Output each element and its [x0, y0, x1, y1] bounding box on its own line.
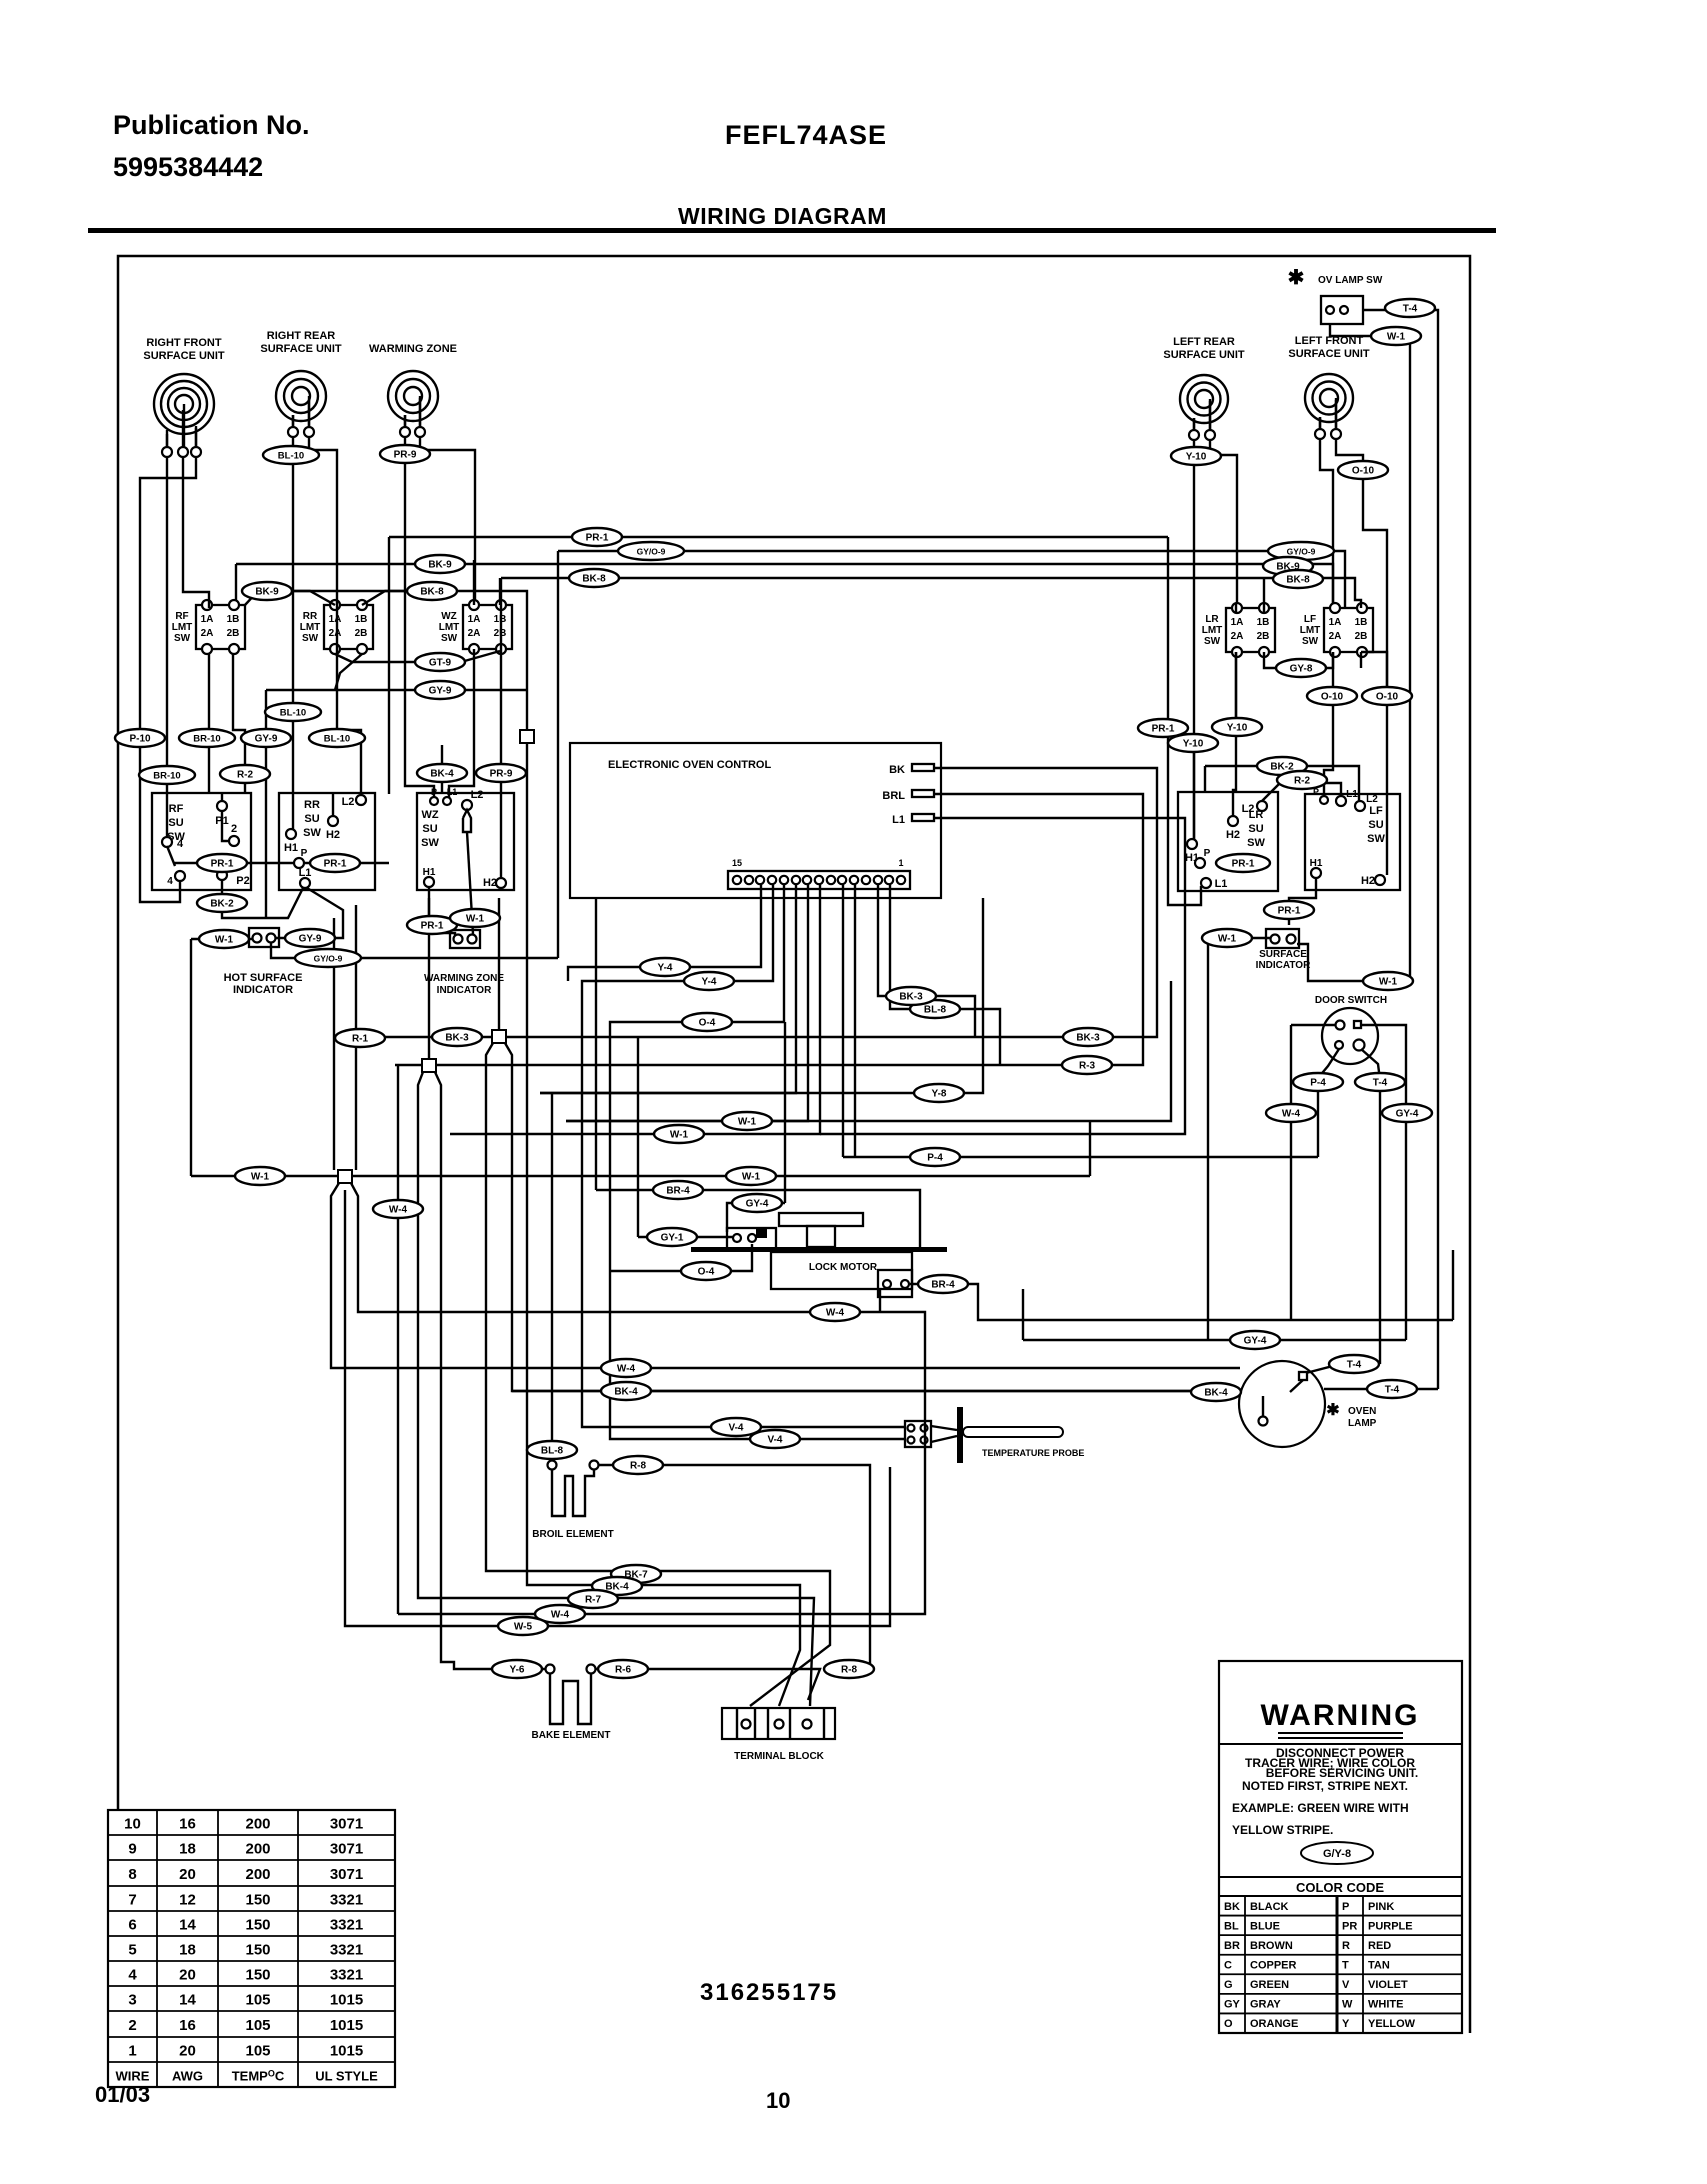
wire label BR-10 [139, 766, 195, 784]
svg-text:2: 2 [231, 823, 237, 835]
svg-text:BR-10: BR-10 [193, 734, 220, 745]
svg-text:WZ: WZ [421, 809, 438, 821]
svg-text:BK: BK [889, 764, 905, 776]
svg-text:O-10: O-10 [1352, 466, 1375, 477]
svg-text:GY/O-9: GY/O-9 [637, 547, 666, 557]
wire label W-4 [810, 1303, 860, 1321]
wire LR left drop [1193, 418, 1195, 839]
svg-text:Y-6: Y-6 [509, 1665, 524, 1676]
wire label BK-2 [197, 894, 247, 912]
wire W-1 surface ind [1208, 938, 1270, 1340]
surface switch LF SU SW [1305, 787, 1400, 890]
wire BK net [350, 768, 1157, 1037]
svg-text:BL-10: BL-10 [324, 734, 350, 745]
svg-text:PR-9: PR-9 [490, 769, 513, 780]
wire label W-5 [498, 1617, 548, 1635]
wire label W-1 [1371, 327, 1421, 345]
svg-text:1015: 1015 [330, 2043, 363, 2060]
svg-text:LEFT REAR: LEFT REAR [1173, 336, 1235, 348]
svg-text:P: P [301, 848, 308, 859]
wire P-4 bus [843, 1156, 1318, 1158]
wire GY/O-9 ind [271, 943, 558, 958]
wire label Y-8 [914, 1084, 964, 1102]
svg-text:BRL: BRL [882, 790, 905, 802]
svg-text:YELLOW STRIPE.: YELLOW STRIPE. [1232, 1823, 1333, 1837]
svg-text:SURFACE UNIT: SURFACE UNIT [1288, 348, 1370, 360]
svg-text:SW: SW [1204, 636, 1221, 647]
wire label BK-3 [432, 1028, 482, 1046]
svg-text:PR-9: PR-9 [394, 450, 417, 461]
svg-text:1B: 1B [1355, 617, 1368, 628]
svg-text:1B: 1B [227, 614, 240, 625]
footer 316255175 [700, 1979, 838, 2006]
wire label PR-1 [572, 528, 622, 546]
svg-text:SU: SU [168, 817, 183, 829]
junction square C [338, 1170, 352, 1183]
svg-text:L2: L2 [1366, 794, 1378, 805]
wire BK-4 low col [527, 743, 800, 1706]
svg-text:4: 4 [167, 876, 173, 887]
svg-text:O-10: O-10 [1376, 692, 1399, 703]
svg-text:150: 150 [245, 1917, 270, 1934]
svg-text:W-4: W-4 [389, 1205, 408, 1216]
svg-text:SW: SW [174, 633, 191, 644]
wire label GY/O-9 [1268, 542, 1334, 560]
wire label W-1 [654, 1125, 704, 1143]
wire label PR-1 [1264, 901, 1314, 919]
wire gauge table [108, 1810, 395, 2087]
svg-text:L2: L2 [471, 789, 484, 801]
svg-text:2B: 2B [1355, 631, 1368, 642]
surface unit LF coil [1288, 335, 1370, 439]
svg-text:AWG: AWG [172, 2069, 203, 2084]
wire BRL net [395, 794, 1143, 1065]
wire label Y-10 [1168, 734, 1218, 752]
svg-text:R-6: R-6 [615, 1665, 632, 1676]
svg-text:T: T [1342, 1960, 1349, 1972]
svg-text:BK-4: BK-4 [430, 769, 454, 780]
wire label BK-4 [601, 1382, 651, 1400]
svg-text:1015: 1015 [330, 1992, 363, 2009]
wire label PR-1 [1138, 719, 1188, 737]
wire label PR-1 [407, 916, 457, 934]
wire label W-4 [535, 1605, 585, 1623]
svg-text:LMT: LMT [172, 622, 193, 633]
warning and color code box [1219, 1661, 1462, 2033]
wire label V-4 [750, 1430, 800, 1448]
wire eoc t13 Y-4 [568, 885, 761, 981]
wire PR-1 bus [389, 537, 1201, 905]
svg-text:W-4: W-4 [551, 1610, 570, 1621]
wire label T-4 [1355, 1073, 1405, 1091]
svg-text:1A: 1A [468, 614, 481, 625]
wire door sw left feed [1291, 1025, 1335, 1320]
wire WZ LMT diagonals [266, 560, 527, 797]
svg-text:O-4: O-4 [698, 1267, 715, 1278]
wire label W-4 [601, 1359, 651, 1377]
svg-text:316255175: 316255175 [700, 1979, 838, 2006]
svg-text:TERMINAL BLOCK: TERMINAL BLOCK [734, 1751, 825, 1762]
svg-text:1A: 1A [1231, 617, 1244, 628]
svg-text:Y-10: Y-10 [1183, 739, 1204, 750]
svg-text:150: 150 [245, 1967, 270, 1984]
svg-text:3: 3 [128, 1992, 136, 2009]
svg-text:3071: 3071 [330, 1866, 363, 1883]
svg-text:R-3: R-3 [1079, 1061, 1096, 1072]
svg-text:T-4: T-4 [1347, 1360, 1362, 1371]
wire label R-2 [220, 765, 270, 783]
svg-text:W-4: W-4 [826, 1308, 845, 1319]
wire BL-8 col [551, 1093, 553, 1460]
svg-text:200: 200 [245, 1866, 270, 1883]
svg-text:G/Y-8: G/Y-8 [1323, 1848, 1351, 1860]
wire label PR-9 [380, 445, 430, 463]
svg-text:10: 10 [766, 2088, 790, 2113]
diagram border [118, 256, 1470, 2033]
limit switch RR LMT SW [300, 600, 373, 654]
junction A feed [498, 898, 500, 1030]
svg-text:WIRE: WIRE [116, 2069, 150, 2084]
svg-text:H1: H1 [284, 842, 298, 854]
wire LR LMT links [1233, 578, 1333, 816]
svg-text:3071: 3071 [330, 1816, 363, 1833]
svg-text:H2: H2 [1361, 875, 1375, 887]
svg-text:SW: SW [1247, 837, 1265, 849]
svg-text:2A: 2A [1231, 631, 1244, 642]
svg-text:BROWN: BROWN [1250, 1940, 1293, 1952]
svg-text:O-10: O-10 [1321, 692, 1344, 703]
wire label R-8 [613, 1456, 663, 1474]
wire eoc t6 [842, 885, 844, 1157]
svg-text:V: V [1342, 1979, 1350, 1991]
wire label GY-9 [285, 929, 335, 947]
svg-text:20: 20 [179, 1866, 196, 1883]
wire L1 net [820, 818, 1185, 1134]
junction C legs [331, 1183, 1240, 1626]
svg-text:2A: 2A [1329, 631, 1342, 642]
svg-text:GY-8: GY-8 [1290, 664, 1313, 675]
svg-text:3321: 3321 [330, 1892, 363, 1909]
wire label P-4 [910, 1148, 960, 1166]
wire R-2 right link [1262, 783, 1341, 801]
svg-text:7: 7 [128, 1892, 136, 1909]
wire LF LMT links [1324, 652, 1387, 793]
svg-text:PR: PR [1342, 1920, 1357, 1932]
svg-text:SW: SW [302, 633, 319, 644]
svg-text:WIRING DIAGRAM: WIRING DIAGRAM [678, 203, 887, 229]
svg-text:3071: 3071 [330, 1841, 363, 1858]
svg-text:BR-10: BR-10 [153, 771, 180, 782]
svg-text:W-1: W-1 [742, 1172, 761, 1183]
wire label W-1 [726, 1167, 776, 1185]
svg-text:LOCK MOTOR: LOCK MOTOR [809, 1262, 878, 1273]
svg-text:BEFORE SERVICING UNIT.: BEFORE SERVICING UNIT. [1266, 1766, 1418, 1780]
svg-text:GY-9: GY-9 [299, 934, 322, 945]
svg-text:18: 18 [179, 1841, 196, 1858]
svg-text:SW: SW [441, 633, 458, 644]
svg-text:200: 200 [245, 1816, 270, 1833]
wire label W-4 [373, 1200, 423, 1218]
svg-text:PR-1: PR-1 [1152, 724, 1175, 735]
svg-text:LMT: LMT [439, 622, 460, 633]
svg-text:SURFACE UNIT: SURFACE UNIT [143, 350, 225, 362]
surface unit RF coil [143, 337, 225, 457]
broil element [532, 1461, 613, 1541]
wire L1 right diag [307, 888, 343, 938]
wire label GY-4 [732, 1194, 782, 1212]
electronic oven control U1 [570, 743, 941, 898]
wire W-4 left col [397, 1065, 399, 1614]
wire P1 stub [221, 793, 223, 801]
svg-text:Y-10: Y-10 [1186, 452, 1207, 463]
wire label W-1 [450, 909, 500, 927]
svg-text:COPPER: COPPER [1250, 1960, 1297, 1972]
svg-text:01/03: 01/03 [95, 2082, 150, 2107]
svg-text:H2: H2 [483, 877, 497, 889]
wire RR LMT diagonals [291, 591, 461, 690]
svg-text:GY-4: GY-4 [1396, 1109, 1419, 1120]
svg-text:DOOR SWITCH: DOOR SWITCH [1315, 995, 1387, 1006]
svg-text:W-4: W-4 [617, 1364, 636, 1375]
svg-text:20: 20 [179, 2043, 196, 2060]
svg-text:W: W [1342, 1999, 1353, 2011]
wire label PR-9 [476, 764, 526, 782]
title rule [88, 228, 1496, 233]
wire GY lock left [638, 1037, 733, 1237]
svg-text:GY: GY [1224, 1999, 1241, 2011]
surface indicator [1256, 929, 1311, 971]
svg-text:COLOR CODE: COLOR CODE [1296, 1880, 1384, 1895]
svg-text:GT-9: GT-9 [429, 658, 452, 669]
svg-text:BK-8: BK-8 [420, 587, 444, 598]
wire label R-7 [568, 1590, 618, 1608]
wire label BK-8 [407, 582, 457, 600]
wire eoc t12 Y-4b [582, 885, 905, 1427]
svg-text:2B: 2B [1257, 631, 1270, 642]
wire label BK-9 [1263, 557, 1313, 575]
wire label BK-2 [1257, 757, 1307, 775]
wire label R-2 [1277, 771, 1327, 789]
svg-text:105: 105 [245, 1992, 270, 2009]
wire W-1 from lamp sw [1297, 324, 1410, 981]
svg-text:RF: RF [169, 803, 184, 815]
svg-text:1: 1 [128, 2043, 136, 2060]
svg-text:RF: RF [175, 611, 188, 622]
wire label BR-4 [918, 1275, 968, 1293]
svg-text:SW: SW [421, 837, 439, 849]
svg-text:BL-10: BL-10 [278, 451, 304, 462]
wire BK-8 bus [501, 578, 1361, 878]
svg-text:H1: H1 [423, 867, 436, 878]
svg-text:WARMING ZONE: WARMING ZONE [424, 973, 504, 984]
svg-text:Y-4: Y-4 [657, 963, 672, 974]
wire label BK-4 [417, 764, 467, 782]
svg-text:2B: 2B [227, 628, 240, 639]
surface switch RF SU SW [152, 793, 251, 890]
svg-text:BK-3: BK-3 [899, 992, 923, 1003]
svg-text:W-5: W-5 [514, 1622, 533, 1633]
svg-text:SURFACE UNIT: SURFACE UNIT [1163, 349, 1245, 361]
svg-text:RR: RR [303, 611, 318, 622]
wire PR-1 surface ind [1289, 878, 1316, 925]
wire RR coil right drop [309, 400, 361, 816]
wire P1 link [222, 811, 229, 841]
svg-text:200: 200 [245, 1841, 270, 1858]
wire BK-2 net [222, 880, 303, 918]
svg-text:W-1: W-1 [1218, 934, 1237, 945]
svg-text:PINK: PINK [1368, 1901, 1394, 1913]
svg-text:6: 6 [128, 1917, 136, 1934]
wire LR right drop [1210, 401, 1237, 603]
wire label BL-8 [910, 1000, 960, 1018]
terminal block [722, 1708, 835, 1762]
wire GY/O-9 bus [558, 551, 1345, 958]
surface switch WZ SU SW [417, 787, 514, 934]
wire label W-1 [1202, 929, 1252, 947]
wire W-1 left long [191, 1121, 1090, 1176]
wire junction A legs [486, 1043, 1240, 1706]
svg-text:PR-1: PR-1 [586, 533, 609, 544]
svg-text:1B: 1B [1257, 617, 1270, 628]
svg-text:3321: 3321 [330, 1917, 363, 1934]
svg-text:WZ: WZ [441, 611, 457, 622]
svg-text:14: 14 [179, 1992, 196, 2009]
svg-text:ORANGE: ORANGE [1250, 2018, 1298, 2030]
wire BR-10 drop [208, 654, 210, 793]
wire label W-1 [1363, 972, 1413, 990]
wire label O-10 [1362, 687, 1412, 705]
wire label GY-8 [1276, 659, 1326, 677]
wire eoc t8 [450, 885, 820, 1134]
svg-text:BAKE ELEMENT: BAKE ELEMENT [532, 1730, 611, 1741]
svg-text:R-8: R-8 [630, 1461, 647, 1472]
door switch [1315, 995, 1387, 1064]
svg-text:LF: LF [1369, 805, 1383, 817]
wire label Y-10 [1212, 718, 1262, 736]
warming zone indicator [424, 930, 504, 996]
hot surface indicator [224, 928, 303, 996]
svg-text:2B: 2B [355, 628, 368, 639]
wire label W-4 [1266, 1104, 1316, 1122]
svg-text:8: 8 [128, 1866, 136, 1883]
wire label PR-1 [310, 854, 360, 872]
svg-text:GY-9: GY-9 [429, 686, 452, 697]
svg-text:L1: L1 [892, 814, 905, 826]
svg-text:BK-8: BK-8 [582, 574, 606, 585]
wire label BK-9 [415, 555, 465, 573]
svg-text:TEMPOC: TEMPOC [232, 2069, 285, 2084]
svg-text:PR-1: PR-1 [1278, 906, 1301, 917]
svg-text:3321: 3321 [330, 1967, 363, 1984]
wire label P-10 [115, 729, 165, 747]
svg-text:BLUE: BLUE [1250, 1920, 1280, 1932]
wire RF coil leads [167, 410, 196, 447]
wire label W-1 [199, 930, 249, 948]
svg-text:4: 4 [128, 1967, 137, 1984]
wire lock motor BR-4 right [910, 1284, 1453, 1320]
svg-text:W-1: W-1 [738, 1117, 757, 1128]
svg-text:FEFL74ASE: FEFL74ASE [725, 120, 887, 150]
svg-text:SW: SW [1367, 833, 1385, 845]
svg-text:P-4: P-4 [927, 1153, 943, 1164]
svg-text:W-1: W-1 [215, 935, 234, 946]
svg-text:Y: Y [1342, 2018, 1350, 2030]
title FEFL74ASE [725, 120, 887, 150]
wire label O-10 [1307, 687, 1357, 705]
wire eoc t9 [566, 885, 808, 1121]
limit switch WZ LMT SW [439, 600, 512, 654]
wire PR-1 right col [1193, 743, 1195, 839]
svg-text:SU: SU [1368, 819, 1383, 831]
wire label T-4 [1367, 1380, 1417, 1398]
surface switch RR SU SW [279, 793, 375, 890]
svg-text:WHITE: WHITE [1368, 1999, 1403, 2011]
wire GY-9 to indicator [276, 937, 307, 939]
svg-text:R: R [1342, 1940, 1350, 1952]
svg-text:G: G [1224, 1979, 1233, 1991]
svg-text:5: 5 [128, 1942, 136, 1959]
footer 01/03 [95, 2082, 150, 2107]
svg-text:✱: ✱ [1288, 267, 1305, 289]
wire WZ right drop [420, 398, 475, 600]
svg-text:BL-10: BL-10 [280, 708, 306, 719]
surface switch LR SU SW [1178, 792, 1278, 891]
svg-text:UL STYLE: UL STYLE [315, 2069, 378, 2084]
wire label GY-4 [1382, 1104, 1432, 1122]
svg-text:1B: 1B [355, 614, 368, 625]
svg-text:BK-9: BK-9 [428, 560, 452, 571]
wire BK-2 right bus [1205, 766, 1359, 801]
oven lamp [1239, 1361, 1377, 1447]
svg-text:BL-8: BL-8 [541, 1446, 564, 1457]
svg-text:10: 10 [124, 1816, 141, 1833]
wire eoc t5 [854, 885, 856, 1157]
junction square B [422, 1059, 436, 1072]
wire label GY-4 [1230, 1331, 1280, 1349]
svg-text:BLACK: BLACK [1250, 1901, 1289, 1913]
svg-text:1A: 1A [201, 614, 214, 625]
wire right margin [1452, 1250, 1454, 1320]
wire label W-1 [235, 1167, 285, 1185]
svg-text:SU: SU [304, 813, 319, 825]
svg-text:L2: L2 [342, 796, 355, 808]
wire eoc t10 [540, 885, 796, 1093]
svg-text:GREEN: GREEN [1250, 1979, 1289, 1991]
svg-text:P-4: P-4 [1310, 1078, 1326, 1089]
svg-text:BR-4: BR-4 [931, 1280, 955, 1291]
svg-text:PURPLE: PURPLE [1368, 1920, 1413, 1932]
junction square D [520, 730, 534, 743]
wire label W-1 [722, 1112, 772, 1130]
wire lock motor W-4 down [879, 1289, 881, 1312]
svg-text:4: 4 [177, 838, 184, 850]
surface unit WZ coil [369, 343, 457, 437]
svg-text:INDICATOR: INDICATOR [1256, 960, 1311, 971]
svg-text:H1: H1 [1310, 858, 1323, 869]
wire R-6 bake [596, 1669, 820, 1700]
svg-text:18: 18 [179, 1942, 196, 1959]
junction C feeds [334, 905, 356, 1170]
svg-text:SURFACE UNIT: SURFACE UNIT [260, 343, 342, 355]
wire T-4 from lamp sw [1363, 310, 1438, 1389]
svg-text:15: 15 [732, 858, 742, 868]
svg-text:2: 2 [128, 2017, 136, 2034]
wire label T-4 [1329, 1355, 1379, 1373]
svg-text:LAMP: LAMP [1348, 1418, 1377, 1429]
wire junction B legs [418, 1072, 814, 1706]
svg-text:BROIL ELEMENT: BROIL ELEMENT [532, 1529, 613, 1540]
svg-text:LMT: LMT [1202, 625, 1223, 636]
